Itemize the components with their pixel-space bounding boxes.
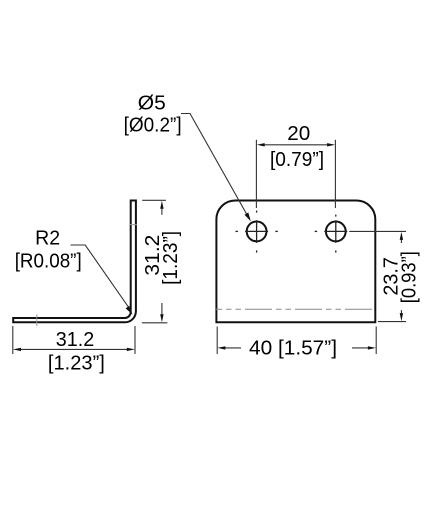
svg-text:Ø5: Ø5: [138, 92, 166, 115]
svg-text:[1.23”]: [1.23”]: [48, 351, 105, 374]
dimension 31.2 vertical: bottom arrow: [161, 303, 163, 318]
leader arrowhead diameter 5: [245, 213, 251, 222]
svg-text:[1.23”]: [1.23”]: [159, 231, 182, 285]
svg-text:[R0.08”]: [R0.08”]: [15, 249, 82, 272]
dimension 40: left extension line: [216, 327, 218, 355]
leader line R2: [71, 245, 131, 310]
dimension 31.2 horizontal: dimension line with outward arrows: [17, 348, 131, 350]
hole right center mark cross: [324, 230, 347, 232]
dimension 20: left extension line: [255, 140, 257, 208]
svg-text:40 [1.57”]: 40 [1.57”]: [249, 336, 337, 359]
dimension 31.2 vertical: top extension line: [142, 199, 166, 201]
dimension 23.7: bottom extension line: [378, 321, 406, 323]
side view faint tick on vertical leg: [130, 224, 137, 226]
dimension 40: left arrow and shaft: [221, 347, 241, 349]
dimension 31.2 horizontal: right extension line: [134, 326, 136, 354]
side view L-profile outline: [13, 201, 136, 323]
hole left circle: [247, 222, 267, 242]
svg-text:[0.93”]: [0.93”]: [398, 251, 421, 303]
leader line diameter 5: [181, 114, 248, 217]
dimension 31.2 horizontal: left extension line: [12, 326, 14, 354]
dimension 40: right extension line: [375, 327, 377, 355]
svg-text:20: 20: [287, 122, 310, 145]
dimension 23.7: bottom arrow: [400, 310, 402, 317]
front view plate outline with rounded top corners: [216, 201, 375, 323]
hole right center line dashes: [315, 230, 317, 232]
dimension 31.2 vertical: bottom extension line: [142, 322, 168, 324]
dimension 20: right extension line: [334, 140, 336, 208]
svg-text:31.2: 31.2: [56, 328, 95, 351]
svg-text:[Ø0.2”]: [Ø0.2”]: [124, 114, 182, 137]
hole left center mark cross: [245, 230, 268, 232]
dimension 23.7: top arrow: [400, 236, 402, 243]
side view faint tick on horizontal leg: [36, 314, 38, 326]
svg-text:R2: R2: [35, 227, 60, 250]
bend line (dash-dot) on front view: [215, 308, 375, 310]
svg-text:[0.79”]: [0.79”]: [270, 148, 324, 171]
dimension 31.2 vertical: top arrow: [161, 205, 163, 215]
dimension 20: dimension line with outward arrows: [261, 144, 332, 146]
dimension 23.7: top extension line from right hole: [349, 230, 406, 232]
leader arrowhead R2: [126, 306, 133, 315]
dimension 40: right arrow and shaft: [352, 347, 372, 349]
hole right circle: [326, 222, 346, 242]
hole left center line dashes: [236, 230, 238, 232]
